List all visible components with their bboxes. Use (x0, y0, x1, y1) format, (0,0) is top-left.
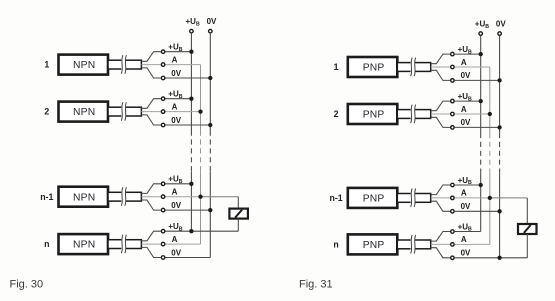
cable break marks sensor n (Fig. 31) (411, 235, 416, 254)
svg-text:n-1: n-1 (329, 193, 342, 203)
sensor box NPN sensor 2 (Fig. 30) (59, 102, 109, 122)
junction (Fig. 31) (479, 52, 483, 56)
supply terminal +UB (Fig. 31) (475, 19, 489, 35)
svg-text:2: 2 (334, 109, 339, 119)
svg-text:NPN: NPN (73, 107, 95, 118)
svg-text:PNP: PNP (363, 110, 385, 121)
wire +UB lead sensor n (Fig. 31) (431, 232, 481, 242)
svg-text:A: A (461, 105, 467, 114)
terminal circle +UB sensor n-1 (Fig. 31) (451, 183, 455, 187)
svg-text:NPN: NPN (73, 192, 95, 203)
wire load return (Fig. 30) (191, 230, 238, 232)
junction (Fig. 30) (198, 109, 202, 113)
junction (Fig. 30) (208, 123, 212, 127)
terminal circle 0V sensor n (Fig. 31) (451, 256, 455, 260)
junction (Fig. 30) (189, 182, 193, 186)
terminal circle +UB sensor 1 (Fig. 31) (451, 52, 455, 56)
terminal circle 0V sensor 1 (Fig. 31) (451, 79, 455, 83)
junction (Fig. 31) (497, 209, 501, 213)
cable of sensor 2 (Fig. 30) (108, 106, 141, 117)
wire 0V lead sensor 2 (Fig. 31) (431, 117, 500, 127)
wire +UB bus vertical (Fig. 31) (480, 35, 482, 231)
svg-text:0V: 0V (461, 118, 471, 127)
svg-text:PNP: PNP (363, 240, 385, 251)
svg-text:0V: 0V (171, 116, 181, 125)
svg-text:0V: 0V (171, 248, 181, 257)
svg-text:A: A (172, 102, 178, 111)
supply terminal 0V (Fig. 31) (496, 19, 506, 35)
terminal circle 0V sensor 1 (Fig. 30) (161, 76, 165, 80)
svg-text:0V: 0V (496, 19, 506, 28)
terminal circle 0V sensor n-1 (Fig. 31) (451, 210, 455, 214)
wire 0V lead sensor n (Fig. 30) (141, 247, 210, 257)
junction (Fig. 31) (497, 256, 501, 260)
sensor box PNP sensor n-1 (Fig. 31) (348, 188, 398, 208)
cable break marks sensor 2 (Fig. 30) (121, 102, 126, 121)
wire 0V lead sensor 2 (Fig. 30) (141, 115, 210, 125)
wire A bus vertical (Fig. 31) (489, 67, 491, 244)
svg-text:n: n (333, 240, 338, 250)
wire load top lead (Fig. 31) (526, 198, 528, 224)
junction (Fig. 31) (488, 112, 492, 116)
junction (Fig. 30) (189, 229, 193, 233)
svg-text:1: 1 (334, 62, 339, 72)
wire +UB lead sensor n (Fig. 30) (141, 231, 191, 241)
svg-text:PNP: PNP (363, 194, 385, 205)
cable of sensor 1 (Fig. 31) (397, 61, 430, 72)
wire A lead sensor 2 (Fig. 30) (141, 111, 200, 113)
cable of sensor n-1 (Fig. 31) (397, 192, 430, 203)
cable of sensor n-1 (Fig. 30) (108, 191, 141, 202)
junction (Fig. 31) (497, 78, 501, 82)
wire 0V bus vertical (Fig. 30) (209, 33, 211, 258)
svg-text:PNP: PNP (363, 63, 385, 74)
terminal circle A sensor 1 (Fig. 30) (161, 63, 165, 67)
terminal circle +UB sensor n-1 (Fig. 30) (161, 182, 165, 186)
sensor box NPN sensor n-1 (Fig. 30) (59, 187, 109, 207)
svg-text:2: 2 (44, 107, 49, 117)
cable break marks sensor n (Fig. 30) (121, 235, 126, 254)
svg-text:0V: 0V (461, 249, 471, 258)
svg-text:0V: 0V (171, 69, 181, 78)
wire 0V lead sensor n-1 (Fig. 30) (141, 200, 210, 210)
junction (Fig. 31) (479, 183, 483, 187)
supply terminal +UB (Fig. 30) (185, 17, 199, 33)
terminal circle A sensor 2 (Fig. 30) (161, 110, 165, 114)
wire A lead sensor n-1 (Fig. 31) (431, 197, 490, 199)
terminal circle +UB sensor 2 (Fig. 30) (161, 97, 165, 101)
wire A lead sensor n (Fig. 30) (141, 243, 200, 245)
wire load top lead (Fig. 30) (237, 197, 239, 209)
svg-text:A: A (461, 235, 467, 244)
cable break marks sensor n-1 (Fig. 31) (411, 189, 416, 208)
sensor box PNP sensor n (Fig. 31) (348, 234, 398, 254)
terminal circle A sensor n-1 (Fig. 30) (161, 195, 165, 199)
terminal circle +UB sensor 1 (Fig. 30) (161, 50, 165, 54)
svg-text:A: A (461, 58, 467, 67)
wire load bottom lead (Fig. 31) (526, 234, 528, 258)
svg-text:A: A (172, 55, 178, 64)
svg-text:0V: 0V (461, 202, 471, 211)
svg-text:NPN: NPN (73, 60, 95, 71)
terminal circle A sensor n-1 (Fig. 31) (451, 196, 455, 200)
junction (Fig. 31) (497, 125, 501, 129)
cable break marks sensor 1 (Fig. 31) (411, 58, 416, 77)
junction (Fig. 30) (208, 208, 212, 212)
wire A lead sensor 2 (Fig. 31) (431, 113, 490, 115)
load symbol (Fig. 31) (518, 224, 537, 234)
cable break marks sensor n-1 (Fig. 30) (121, 187, 126, 206)
terminal circle A sensor n (Fig. 30) (161, 242, 165, 246)
wire A lead sensor 1 (Fig. 30) (141, 64, 200, 66)
terminal circle +UB sensor n (Fig. 31) (451, 230, 455, 234)
sensor box NPN sensor n (Fig. 30) (59, 234, 109, 254)
wire +UB bus vertical (Fig. 30) (190, 33, 192, 231)
wire 0V lead sensor 1 (Fig. 30) (141, 68, 210, 78)
svg-text:Fig. 31: Fig. 31 (299, 279, 333, 291)
terminal circle 0V sensor n-1 (Fig. 30) (161, 208, 165, 212)
wire +UB lead sensor n-1 (Fig. 31) (431, 185, 481, 195)
terminal circle 0V sensor 2 (Fig. 31) (451, 126, 455, 129)
wire 0V lead sensor n-1 (Fig. 31) (431, 201, 500, 211)
terminal circle +UB sensor 2 (Fig. 31) (451, 99, 455, 103)
terminal circle A sensor n (Fig. 31) (451, 243, 455, 247)
cable of sensor 1 (Fig. 30) (108, 59, 141, 70)
junction (Fig. 30) (208, 76, 212, 80)
wire A-line extension to load (Fig. 30) (201, 196, 239, 198)
svg-text:Fig. 30: Fig. 30 (10, 279, 44, 291)
svg-text:1: 1 (44, 60, 49, 70)
wire +UB lead sensor 2 (Fig. 31) (431, 101, 481, 111)
svg-text:A: A (172, 188, 178, 197)
wire +UB lead sensor 2 (Fig. 30) (141, 99, 191, 109)
load symbol (Fig. 30) (229, 209, 248, 219)
cable break marks sensor 1 (Fig. 30) (121, 55, 126, 73)
wire 0V lead sensor 1 (Fig. 31) (431, 70, 500, 80)
cable break marks sensor 2 (Fig. 31) (411, 105, 416, 124)
svg-text:A: A (172, 235, 178, 244)
wire load return (Fig. 31) (500, 257, 528, 259)
wire +UB lead sensor n-1 (Fig. 30) (141, 184, 191, 194)
wire A lead sensor n (Fig. 31) (431, 243, 490, 245)
wire 0V lead sensor n (Fig. 31) (431, 248, 500, 258)
cable of sensor n (Fig. 31) (397, 239, 430, 250)
wire A-line extension to load (Fig. 31) (490, 197, 528, 199)
svg-text:n: n (44, 239, 49, 249)
cable of sensor 2 (Fig. 31) (397, 108, 430, 119)
sensor box PNP sensor 2 (Fig. 31) (348, 104, 398, 124)
terminal circle 0V sensor 2 (Fig. 30) (161, 123, 165, 127)
junction (Fig. 31) (488, 196, 492, 200)
wire +UB lead sensor 1 (Fig. 31) (431, 54, 481, 64)
junction (Fig. 31) (479, 99, 483, 103)
junction (Fig. 30) (189, 97, 193, 101)
terminal circle +UB sensor n (Fig. 30) (161, 229, 165, 233)
svg-text:0V: 0V (207, 17, 217, 26)
wire A lead sensor n-1 (Fig. 30) (141, 196, 200, 198)
svg-text:0V: 0V (461, 71, 471, 80)
svg-text:n-1: n-1 (40, 192, 53, 202)
svg-text:NPN: NPN (73, 240, 95, 251)
svg-text:A: A (461, 189, 467, 198)
wire A bus vertical (Fig. 30) (200, 65, 202, 245)
sensor box PNP sensor 1 (Fig. 31) (348, 57, 398, 77)
wire load bottom lead (Fig. 30) (237, 219, 239, 232)
terminal circle A sensor 2 (Fig. 31) (451, 112, 455, 116)
cable of sensor n (Fig. 30) (108, 239, 141, 250)
wire +UB lead sensor 1 (Fig. 30) (141, 52, 191, 62)
svg-text:0V: 0V (171, 201, 181, 210)
junction (Fig. 30) (198, 195, 202, 199)
wire A lead sensor 1 (Fig. 31) (431, 66, 490, 68)
terminal circle 0V sensor n (Fig. 30) (161, 256, 165, 260)
wire 0V bus vertical (Fig. 31) (499, 35, 501, 257)
junction (Fig. 30) (189, 50, 193, 54)
supply terminal 0V (Fig. 30) (207, 17, 217, 33)
sensor box NPN sensor 1 (Fig. 30) (59, 55, 109, 75)
terminal circle A sensor 1 (Fig. 31) (451, 65, 455, 69)
